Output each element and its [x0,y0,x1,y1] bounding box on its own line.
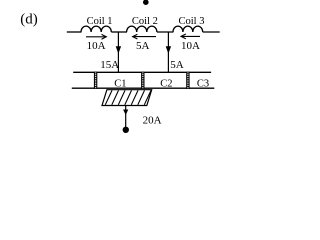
node dot (load terminal) [123,127,129,133]
svg-text:Coil 1: Coil 1 [87,16,113,27]
svg-text:20A: 20A [143,115,162,127]
busbar top conductor [73,71,211,73]
svg-text:Coil 3: Coil 3 [179,16,205,27]
wire left lead [67,31,82,33]
joint bar 2 (stippled separator) [141,72,144,89]
coil L1 (Coil 1) [81,26,111,32]
joint bar 3 (stippled separator) [186,72,189,89]
current arrow 5A under Coil 2 (leftward) [133,34,156,39]
wire between Coil 2 and Coil 3 [157,31,174,33]
coil L2 (Coil 2) [127,26,157,32]
node dot (terminal from figure above) [143,0,149,5]
svg-text:C3: C3 [197,78,209,89]
load wire below box [125,106,127,128]
branch wire from node between Coil 2 and Coil 3 down to busbar [167,32,169,72]
busbar bottom conductor [72,87,215,89]
current arrow 10A under Coil 3 (leftward) [181,34,200,39]
coil L3 (Coil 3) [173,26,203,32]
svg-text:15A: 15A [100,59,119,71]
branch wire from node between Coil 1 and Coil 2 down to busbar [117,32,119,72]
svg-text:5A: 5A [170,59,184,71]
wire right lead [203,31,220,33]
wire between Coil 1 and Coil 2 [111,31,127,33]
current arrow 10A under Coil 1 (rightward) [86,34,106,39]
svg-text:(d): (d) [20,11,38,27]
svg-text:10A: 10A [87,40,106,52]
svg-text:C2: C2 [160,78,172,89]
branch arrowhead 15A (downward) [116,46,121,54]
svg-text:10A: 10A [181,40,200,52]
svg-text:Coil 2: Coil 2 [132,16,158,27]
branch arrowhead 5A (downward) [166,46,171,54]
load arrowhead 20A (downward) [123,110,128,116]
hatched load box [102,90,152,106]
svg-text:5A: 5A [136,40,150,52]
joint bar 1 (stippled separator) [94,72,97,89]
svg-text:C1: C1 [114,78,126,89]
